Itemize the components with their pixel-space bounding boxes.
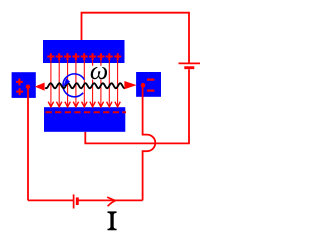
- torsion wave (spring): [45, 83, 125, 88]
- field lines E: [51, 57, 118, 106]
- left square (+ charge): [12, 72, 36, 98]
- rotation arc arrowhead: [63, 78, 70, 87]
- field line arrowheads: [48, 102, 120, 107]
- bottom wire right segment: [78, 199, 142, 201]
- node dot on left square: [26, 85, 31, 90]
- current direction arrow: [107, 197, 115, 206]
- plus charges on top plate: [47, 53, 121, 60]
- minus charges on bottom plate (dashed line): [46, 111, 127, 113]
- bottom wire left segment: [28, 199, 73, 201]
- battery B2 short plate: [76, 197, 79, 205]
- battery B1 long plate: [179, 62, 201, 64]
- node dot on right square: [141, 83, 146, 88]
- current label I: [108, 211, 117, 230]
- right square (- charge): [136, 72, 161, 97]
- rotation arc omega: [63, 74, 84, 97]
- battery B2 long plate: [73, 194, 75, 208]
- omega label background: [88, 66, 107, 80]
- omega label: [91, 67, 107, 79]
- left force arrow: [35, 83, 45, 91]
- wire from top plate to battery (top loop): [82, 13, 190, 63]
- wire from right square node down, hopping over horizontal wire: [143, 85, 156, 200]
- minus charges on right square: [147, 80, 155, 91]
- battery B1 short plate: [184, 66, 194, 69]
- bottom plate: [44, 107, 125, 132]
- right force arrow: [124, 81, 136, 89]
- top plate: [43, 40, 125, 63]
- wire from battery down and left to bottom plate: [85, 69, 189, 143]
- plus charges on left square: [16, 79, 23, 96]
- wire from left square node down to bottom loop: [27, 87, 29, 201]
